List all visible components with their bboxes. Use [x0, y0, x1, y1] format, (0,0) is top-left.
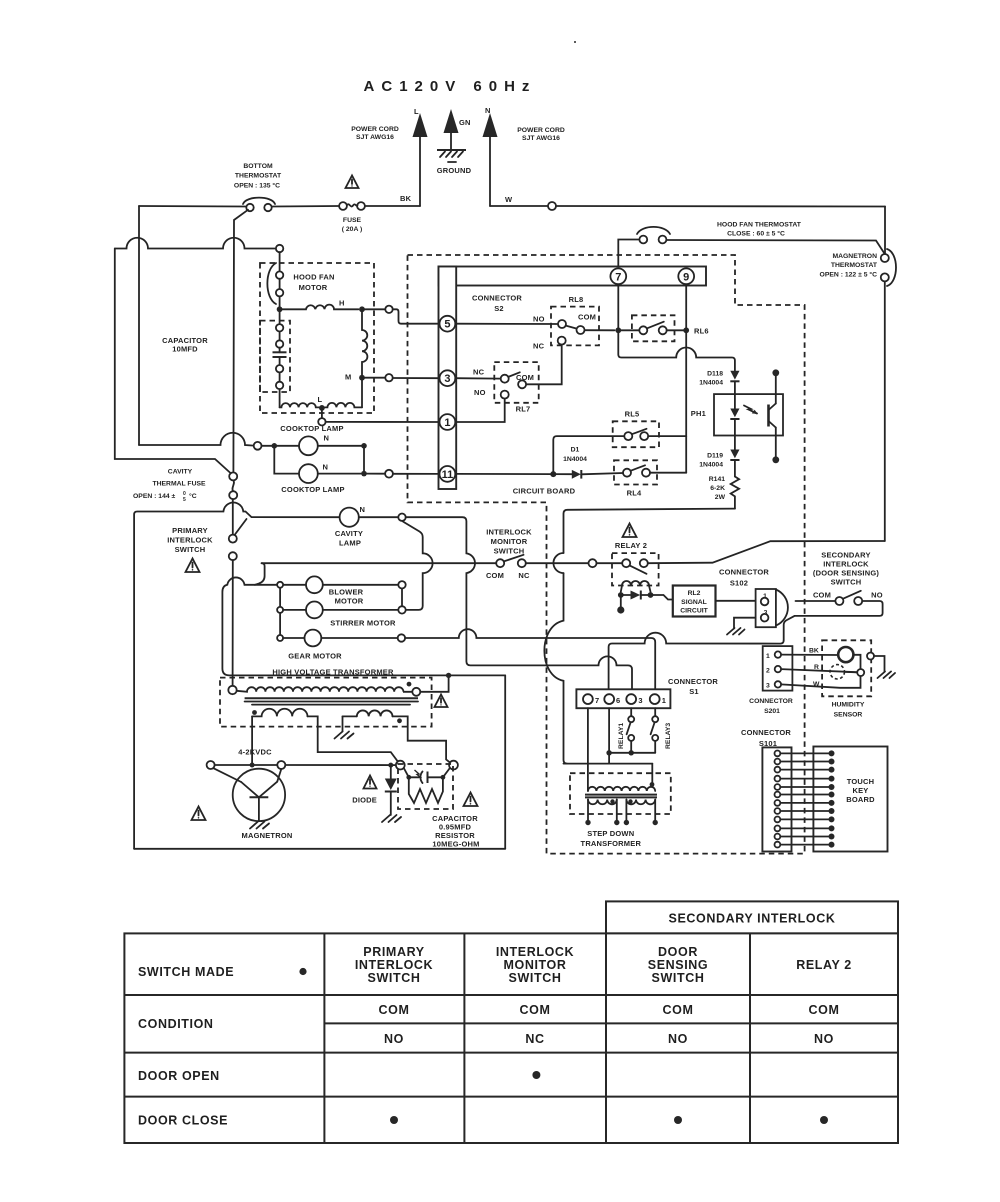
lever RL5 — [632, 429, 647, 434]
lever RL6 — [647, 322, 664, 329]
svg-text:(DOOR SENSING): (DOOR SENSING) — [813, 568, 879, 577]
wire L to connector 1 — [326, 421, 440, 423]
hood fan thermostat arc — [637, 227, 670, 234]
svg-text:NC: NC — [533, 342, 545, 351]
table column lines — [324, 933, 750, 1143]
wire relay2 output to right rail — [648, 541, 885, 563]
wire R141 to sense line — [564, 509, 735, 553]
svg-text:CAVITY: CAVITY — [335, 529, 363, 538]
svg-text:W: W — [505, 195, 513, 204]
terminal stirrer right — [398, 606, 405, 613]
svg-text:SENSOR: SENSOR — [834, 712, 863, 719]
junction M branch top — [359, 306, 365, 312]
magnetron thermostat arc — [887, 249, 896, 286]
high voltage transformer dashed box — [220, 678, 432, 727]
wire outer loop left — [115, 249, 231, 474]
wire relay2 to RL2 box — [651, 595, 673, 600]
wire lamp1 to junction — [318, 445, 364, 447]
wire RL7 NO down to connector1 wire — [455, 399, 504, 422]
wire W to right rail — [556, 205, 885, 208]
wire L lead — [419, 137, 421, 206]
wire M down to L line — [361, 381, 363, 408]
PH1 LED — [730, 394, 739, 435]
wire right rail upper — [884, 207, 886, 255]
svg-text:CONDITION: CONDITION — [138, 1017, 214, 1031]
svg-text:OPEN : 135 °C: OPEN : 135 °C — [234, 182, 280, 190]
svg-text:4-2KVDC: 4-2KVDC — [238, 748, 272, 757]
svg-text:SECONDARY: SECONDARY — [821, 550, 870, 559]
svg-text:COM: COM — [486, 571, 504, 580]
hood fan brush arc — [267, 263, 276, 304]
blower motor wire — [255, 584, 306, 586]
svg-text:TRANSFORMER: TRANSFORMER — [581, 839, 642, 848]
PH1 collector terminal dot — [772, 369, 779, 376]
humidity sensor element — [838, 647, 853, 662]
HV secondary winding — [357, 710, 393, 716]
svg-text:RELAY3: RELAY3 — [665, 723, 672, 749]
diode D118 — [730, 371, 739, 394]
wire hood fan feed with hop over x232.8 — [139, 433, 254, 446]
terminal relay2 feed — [589, 559, 597, 567]
svg-text:SJT AWG16: SJT AWG16 — [522, 135, 560, 142]
wire L tap down — [321, 408, 323, 418]
svg-text:RL4: RL4 — [627, 489, 642, 498]
svg-text:R141: R141 — [709, 476, 725, 483]
touch key board terminal dots — [829, 750, 835, 847]
svg-text:10MFD: 10MFD — [172, 345, 198, 354]
connector S201 box — [763, 646, 793, 691]
wire blower-stirrer right link — [401, 589, 403, 607]
svg-text:COM: COM — [809, 1003, 840, 1017]
svg-text:GEAR MOTOR: GEAR MOTOR — [288, 652, 342, 661]
svg-text:SIGNAL: SIGNAL — [681, 599, 707, 606]
svg-text:6: 6 — [616, 696, 620, 705]
svg-text:3: 3 — [766, 683, 770, 690]
svg-text:GROUND: GROUND — [437, 166, 472, 175]
magnetron filament terminal right — [277, 761, 285, 769]
wire terminal to connector 11 — [393, 473, 440, 475]
svg-text:3: 3 — [764, 610, 768, 617]
svg-text:KEY: KEY — [852, 786, 868, 795]
wire HV bus to capacitor — [285, 764, 396, 766]
contact RL4 left — [623, 469, 631, 477]
svg-text:M: M — [345, 373, 351, 382]
contact RL6 left — [639, 326, 647, 334]
magnetron filament terminal left — [207, 761, 215, 769]
connector S101 box — [762, 747, 791, 851]
step down transformer primary coil — [588, 787, 655, 791]
wire capacitor loop top — [115, 238, 276, 249]
wire N lead — [489, 137, 491, 206]
svg-text:LAMP: LAMP — [339, 539, 361, 548]
S1 pin 7 — [583, 694, 593, 704]
wire NC to relay2 — [526, 562, 589, 564]
motor loop left edge — [222, 577, 505, 675]
svg-text:H: H — [339, 299, 345, 308]
wire H to connector 5 — [393, 309, 440, 323]
wire filament right down — [308, 716, 400, 763]
terminal humidity right — [857, 669, 864, 676]
HV filament polarity dot — [252, 710, 257, 715]
svg-text:PRIMARY: PRIMARY — [363, 945, 424, 959]
svg-text:RELAY 2: RELAY 2 — [615, 541, 647, 550]
junction relay1 bottom — [629, 750, 634, 755]
capacitor dashed box — [260, 321, 290, 392]
HV primary coil — [237, 687, 412, 692]
svg-text:1N4004: 1N4004 — [699, 380, 723, 387]
svg-text:10MEG-OHM: 10MEG-OHM — [432, 840, 479, 849]
wire to terminal 11 — [364, 473, 385, 475]
svg-text:COM: COM — [578, 313, 596, 322]
S1 pin 6 — [604, 694, 614, 704]
stirrer motor wire — [283, 609, 306, 611]
relay2 diode — [621, 591, 651, 600]
svg-text:THERMOSTAT: THERMOSTAT — [831, 262, 878, 269]
svg-text:NC: NC — [518, 571, 530, 580]
contact monitor NC — [518, 559, 526, 567]
wire RL8 NC down to RL7 COM — [526, 345, 562, 385]
step down secondary coil A — [588, 800, 617, 805]
cavity thermal fuse — [229, 472, 237, 499]
junction RL6 left — [615, 327, 621, 333]
svg-text:INTERLOCK: INTERLOCK — [823, 559, 869, 568]
line L arrow — [413, 113, 428, 137]
humidity sensor dashed box — [822, 640, 871, 696]
svg-text:MONITOR: MONITOR — [504, 958, 567, 972]
HV capacitor left terminal — [396, 761, 405, 770]
svg-text:9: 9 — [683, 271, 689, 283]
svg-text:MONITOR: MONITOR — [491, 537, 528, 546]
relay 2 warning triangle — [623, 524, 637, 538]
wire N main right — [490, 205, 548, 207]
relay3 switch — [651, 708, 659, 753]
wire to cooktop lamp 1 — [262, 445, 300, 447]
wire H to terminal — [362, 308, 385, 310]
polarity dot primary — [650, 782, 655, 787]
svg-text:BOARD: BOARD — [846, 795, 875, 804]
wire cavity terminal to monitor drop — [406, 517, 632, 694]
contact relay2 right — [640, 559, 648, 567]
lever secondary interlock — [843, 591, 861, 599]
wire HV primary right up to feeder — [420, 675, 448, 691]
svg-text:INTERLOCK: INTERLOCK — [496, 945, 574, 959]
lever relay2 — [630, 565, 647, 573]
svg-text:RELAY 2: RELAY 2 — [796, 958, 852, 972]
svg-text:N: N — [323, 463, 329, 472]
svg-text:RL7: RL7 — [516, 405, 531, 414]
fuse F1 20A — [339, 202, 365, 210]
wire RL5 right — [648, 435, 686, 437]
wire lamp2 to junction — [318, 473, 364, 475]
svg-text:COM: COM — [813, 590, 831, 599]
contact secondary NO — [854, 597, 862, 605]
gear motor wire — [283, 637, 304, 639]
junction RL6 right — [683, 327, 689, 333]
svg-text:COOKTOP LAMP: COOKTOP LAMP — [280, 424, 343, 433]
relay1 switch — [627, 708, 635, 753]
S102 pin contacts — [761, 598, 769, 606]
svg-text:TOUCH: TOUCH — [847, 777, 875, 786]
wire right rail lower — [884, 281, 886, 541]
svg-text:CONNECTOR: CONNECTOR — [749, 698, 793, 705]
wire S1 pin7 down — [587, 708, 589, 791]
contact RL8 NC — [558, 337, 566, 345]
svg-text:HOOD FAN: HOOD FAN — [293, 273, 334, 282]
svg-text:N: N — [324, 434, 330, 443]
svg-text:CONNECTOR: CONNECTOR — [668, 677, 718, 686]
cooktop lamp 1 — [299, 436, 318, 455]
hood fan motor dashed box — [260, 263, 374, 413]
terminal L — [318, 418, 325, 425]
blower motor — [306, 576, 323, 593]
diode D119 — [730, 436, 739, 477]
wire S102 arc to COM — [796, 600, 836, 602]
svg-text:NO: NO — [871, 590, 883, 599]
HV core lines — [245, 698, 418, 704]
wire connector3 to RL7 NC — [455, 377, 500, 379]
svg-text:2: 2 — [766, 668, 770, 675]
pin 11 circled — [440, 466, 456, 482]
svg-text:MAGNETRON: MAGNETRON — [832, 253, 877, 260]
HV resistor symbol — [409, 777, 443, 803]
svg-text:DOOR: DOOR — [658, 945, 698, 959]
connector S2 horizontal bar — [439, 267, 707, 286]
S1 pin 1 — [650, 694, 660, 704]
terminal gear right — [398, 634, 405, 641]
table row lines — [124, 995, 898, 1097]
pin 9 circled — [678, 268, 694, 284]
svg-text:CONNECTOR: CONNECTOR — [719, 568, 769, 577]
PH1 emitter terminal dot — [772, 456, 779, 463]
capacitor chain 10MFD — [273, 309, 287, 407]
lever monitor switch — [504, 555, 524, 562]
relay RL4 dashed box — [614, 460, 657, 484]
relay2 coil leads — [621, 586, 622, 592]
wire COM bus — [262, 562, 497, 564]
wire W — [781, 676, 860, 688]
svg-text:D1: D1 — [571, 447, 580, 454]
relay 2 dashed box — [612, 553, 659, 585]
PH1 light arrow — [744, 406, 758, 415]
svg-text:CONNECTOR: CONNECTOR — [472, 294, 522, 303]
svg-text:POWER CORD: POWER CORD — [517, 127, 565, 134]
svg-text:NC: NC — [525, 1032, 544, 1046]
svg-text:BK: BK — [809, 648, 819, 655]
svg-text:HOOD FAN THERMOSTAT: HOOD FAN THERMOSTAT — [717, 222, 802, 229]
svg-text:SWITCH: SWITCH — [494, 547, 525, 556]
wire RL6 to D118 with hop over pin9 line — [618, 330, 735, 371]
svg-text:S102: S102 — [730, 579, 748, 588]
HV primary polarity dot — [407, 682, 412, 687]
HV capacitor right terminal — [449, 761, 458, 770]
terminal cooktop feed — [254, 442, 262, 450]
relay RL6 dashed box — [632, 315, 675, 341]
svg-text:MOTOR: MOTOR — [299, 283, 328, 292]
relay bottom rail — [609, 752, 655, 754]
contact RL4 right — [642, 469, 650, 477]
wire HV secondary right to capacitor — [393, 716, 451, 763]
junction diode tap — [388, 763, 393, 768]
svg-text:RL2: RL2 — [688, 590, 701, 597]
svg-text:SWITCH: SWITCH — [509, 971, 562, 985]
svg-text:COM: COM — [379, 1003, 410, 1017]
svg-text:NO: NO — [668, 1032, 688, 1046]
svg-text:RL6: RL6 — [694, 327, 709, 336]
svg-text:OPEN : 122 ± 5 °C: OPEN : 122 ± 5 °C — [820, 271, 878, 279]
warning triangle magnetron — [192, 807, 206, 821]
wire connector5 to RL8 NO — [455, 323, 558, 325]
wire fuse to L node — [365, 205, 420, 207]
cooktop lamp 2 — [299, 464, 318, 483]
HV secondary polarity dot — [397, 718, 402, 723]
stirrer motor — [306, 602, 323, 619]
svg-text:7: 7 — [615, 271, 621, 283]
wire RL8 COM to RL6 — [585, 329, 615, 331]
capacitor resistor dashed box — [398, 764, 453, 809]
svg-text:DIODE: DIODE — [352, 796, 377, 805]
S101 ribbon wires — [780, 753, 829, 844]
optocoupler PH1 box — [714, 394, 783, 435]
wire lamps N vertical — [363, 446, 365, 474]
svg-text:L: L — [414, 107, 419, 116]
svg-text:RL5: RL5 — [625, 410, 640, 419]
svg-text:AC120V 60Hz: AC120V 60Hz — [364, 78, 537, 95]
polarity dot secondary A — [610, 799, 614, 803]
coil H winding — [280, 305, 359, 310]
terminal on W wire — [548, 202, 556, 210]
svg-text:PH1: PH1 — [691, 409, 706, 418]
wire relay rail B to S1 pin6 — [609, 633, 784, 695]
wire sensor link right — [853, 655, 860, 669]
svg-text:HIGH VOLTAGE TRANSFORMER: HIGH VOLTAGE TRANSFORMER — [272, 668, 394, 677]
svg-text:S2: S2 — [494, 304, 504, 313]
relay RL8 dashed box — [551, 307, 599, 346]
wire M to connector 3 — [393, 377, 440, 379]
relay2 coil stub terminal — [617, 595, 624, 614]
terminal H — [385, 306, 392, 313]
contact RL8 NO — [558, 320, 566, 328]
secondary lead stubs — [588, 800, 655, 821]
svg-text:GN: GN — [459, 118, 471, 127]
contact RL7 NC — [501, 375, 509, 383]
dot door close sensing — [674, 1116, 682, 1124]
dot door close relay2 — [820, 1116, 828, 1124]
svg-text:7: 7 — [595, 696, 599, 705]
ground symbol main — [437, 150, 466, 162]
terminal blower right — [398, 581, 405, 588]
relay RL5 dashed box — [613, 421, 659, 447]
wire gear to right — [321, 637, 397, 639]
warning triangle fuse — [346, 176, 359, 189]
svg-text:INTERLOCK: INTERLOCK — [167, 536, 213, 545]
svg-text:THERMOSTAT: THERMOSTAT — [235, 173, 282, 180]
warning triangle capacitor — [464, 793, 478, 807]
svg-text:SWITCH: SWITCH — [175, 545, 206, 554]
lever RL4 — [631, 465, 646, 471]
coil M winding — [362, 312, 367, 375]
ground HV secondary — [335, 732, 354, 739]
svg-text:MAGNETRON: MAGNETRON — [242, 831, 293, 840]
wire COM bus to motor rail — [255, 563, 265, 585]
wire sense line lower — [544, 573, 567, 764]
relay RL7 dashed box — [494, 362, 538, 403]
lever RL7 — [508, 372, 520, 377]
svg-text:MOTOR: MOTOR — [335, 597, 364, 606]
wire transformer primary feed — [564, 763, 653, 765]
junction H branch — [277, 306, 283, 312]
speck noise — [574, 41, 576, 43]
pin 7 circled — [610, 268, 626, 284]
primary interlock switch — [229, 499, 247, 560]
magnetron tube — [213, 768, 285, 821]
wire S1 pin6 down — [608, 708, 610, 763]
polarity dot secondary B — [628, 799, 632, 803]
svg-text:THERMAL FUSE: THERMAL FUSE — [152, 481, 206, 488]
svg-text:1: 1 — [444, 417, 450, 429]
svg-text:D118: D118 — [707, 371, 723, 378]
contact relay2 left — [622, 559, 630, 567]
warning triangle HV — [435, 695, 448, 708]
svg-text:BLOWER: BLOWER — [329, 588, 364, 597]
svg-text:SJT AWG16: SJT AWG16 — [356, 134, 394, 141]
wire left rail x139 — [138, 206, 140, 445]
wire GN lead — [450, 133, 452, 150]
RL2 signal circuit box — [673, 586, 716, 617]
wire HV secondary left to ground — [343, 715, 357, 717]
junction relay2 coil left — [618, 592, 624, 598]
motor rail terminal 1 — [277, 582, 283, 588]
svg-text:N: N — [485, 106, 491, 115]
wire connector11 to D1 — [455, 473, 553, 475]
table secondary interlock header box — [606, 901, 898, 933]
bottom thermostat contacts — [246, 204, 253, 211]
svg-text:( 20A ): ( 20A ) — [342, 226, 363, 233]
hood fan thermostat contacts — [639, 236, 647, 244]
HV filament winding — [252, 709, 307, 717]
svg-text:STEP DOWN: STEP DOWN — [587, 829, 634, 838]
wire primary right lead — [651, 764, 653, 787]
diode HV — [385, 765, 397, 815]
wire pin9 drop — [685, 286, 687, 473]
cavity lamp — [340, 508, 359, 527]
svg-text:HUMIDITY: HUMIDITY — [832, 702, 865, 709]
transformer core — [585, 795, 657, 798]
wire feeder right edge — [504, 675, 506, 848]
svg-text:STIRRER MOTOR: STIRRER MOTOR — [330, 619, 396, 628]
relay2 coil — [622, 581, 649, 586]
connector S1 box — [576, 689, 670, 708]
wire RL4 right — [650, 472, 686, 474]
bottom power rail — [134, 848, 505, 850]
svg-text:CIRCUIT BOARD: CIRCUIT BOARD — [513, 487, 576, 496]
junction lamp2 out — [361, 471, 367, 477]
svg-text:1: 1 — [662, 696, 666, 705]
touch key board box — [813, 747, 887, 852]
svg-text:NO: NO — [474, 388, 486, 397]
PH1 transistor — [769, 375, 776, 457]
contact RL8 COM — [577, 326, 585, 334]
diode D1 — [553, 470, 623, 479]
svg-text:COM: COM — [520, 1003, 551, 1017]
wire secondary NO return — [784, 601, 883, 640]
big power loop left rail — [134, 502, 340, 848]
HV primary right terminal — [412, 688, 420, 696]
warning triangle primary interlock — [186, 559, 200, 573]
svg-text:6-2K: 6-2K — [710, 485, 725, 492]
junction D1 — [550, 471, 556, 477]
svg-text:5: 5 — [444, 319, 450, 331]
connector S2 vertical bar — [439, 267, 457, 490]
